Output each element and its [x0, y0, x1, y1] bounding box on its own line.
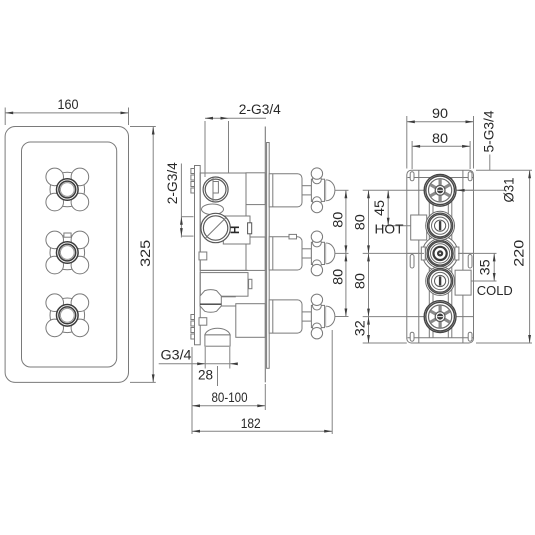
handle hub (side view): [311, 305, 324, 327]
HOT side block: [411, 215, 427, 240]
bracket slot hatches lower: [191, 315, 195, 320]
svg-text:80: 80: [353, 273, 369, 289]
svg-text:80-100: 80-100: [212, 390, 248, 406]
port circle 2 (hot inlet): [201, 213, 230, 242]
mounting bracket outline (back view): [407, 170, 474, 343]
H box side tab: [248, 223, 252, 234]
row3 volume control block: [236, 304, 265, 338]
svg-text:160: 160: [58, 97, 79, 113]
svg-text:35: 35: [478, 259, 494, 275]
svg-text:80: 80: [432, 131, 448, 147]
handle hub (side view): [311, 242, 324, 264]
valve column vertical lines: [428, 178, 430, 338]
handle stem (side view): [302, 312, 311, 321]
dimension 160 extension lines: [4, 108, 6, 126]
elbow outlet lines to block: [221, 296, 236, 298]
port circle top (G3/4 outlet): [203, 177, 228, 202]
handle cross lobes (side view): [313, 238, 322, 247]
handle bell (side view): [269, 300, 302, 333]
handle cross lobes (side view): [313, 175, 322, 184]
cold inlet port (back view): [426, 267, 455, 296]
mounting bracket edge-on: [195, 166, 201, 345]
boss oval between ports: [202, 204, 224, 215]
handle dome cap (side view): [325, 306, 327, 327]
dimension 45: [382, 225, 411, 227]
svg-text:182: 182: [241, 416, 261, 432]
svg-text:32: 32: [353, 320, 369, 336]
svg-text:5-G3/4: 5-G3/4: [482, 110, 498, 152]
svg-text:80: 80: [331, 269, 347, 285]
svg-text:220: 220: [511, 240, 527, 267]
cartridge 2 double top line: [200, 269, 248, 271]
body small tab lower-left: [199, 318, 207, 326]
dimension 325 extension lines: [130, 126, 156, 128]
H cartridge box: [223, 216, 250, 244]
handle cross lobes (side view): [313, 301, 322, 310]
handle escutcheon circle: [50, 235, 85, 270]
handle cross lobes: [46, 168, 64, 186]
bracket mounting slots: [410, 172, 414, 181]
svg-text:90: 90: [432, 106, 448, 122]
svg-text:COLD: COLD: [477, 284, 513, 298]
handle inner circle: [60, 246, 74, 260]
handle stem (side view): [302, 186, 311, 195]
central rib stub lines: [407, 252, 422, 254]
dimension 80 top: [411, 141, 413, 169]
bottom outlet arch: [205, 328, 230, 335]
bracket inner horizontal lines: [408, 177, 474, 179]
left view: faceplate inner outline: [22, 142, 117, 367]
dimension 35: [458, 252, 497, 254]
svg-text:80: 80: [331, 212, 347, 228]
svg-text:H: H: [230, 226, 242, 234]
row2 cartridge cylinder: [246, 237, 265, 270]
right view left dimension column 80/80/32: [363, 189, 407, 191]
svg-text:28: 28: [198, 368, 213, 384]
svg-text:325: 325: [138, 240, 154, 267]
dimension 80-100: [191, 347, 193, 410]
COLD side block: [455, 270, 471, 295]
middle 80/80 dimension column: [345, 190, 347, 316]
dimension 28 line and arrows: [205, 363, 237, 365]
left label dimension line: [180, 164, 182, 238]
handle cross lobes: [46, 231, 64, 249]
wall plate back face line: [264, 127, 266, 383]
handle dome cap (side view): [325, 243, 327, 264]
row1 cartridge cylinder: [246, 173, 265, 205]
handle hub (side view): [311, 179, 324, 201]
svg-text:45: 45: [372, 200, 388, 216]
elbow barrel: [200, 290, 221, 313]
dimension 160 line: [5, 112, 128, 114]
handle bell (side view): [269, 237, 302, 270]
handle hub rings: [56, 304, 78, 326]
handle escutcheon circle: [50, 172, 85, 207]
svg-text:80: 80: [353, 214, 369, 230]
temperature stop button (side): [289, 234, 297, 239]
handle dome cap (side view): [325, 180, 327, 201]
handle bell (side view): [269, 174, 302, 207]
handle hub rings: [56, 241, 78, 263]
bracket inner vertical lines: [418, 170, 420, 343]
bottom outlet pipe: [205, 335, 230, 346]
body small tab upper-left: [199, 252, 207, 260]
handle stem (side view): [302, 249, 311, 258]
cartridge 2 body: [200, 273, 248, 297]
bracket slot hatches upper: [191, 169, 195, 174]
handle escutcheon circle: [50, 298, 85, 333]
handle cross lobes: [46, 294, 64, 312]
wall plate front strip: [267, 143, 270, 369]
bottom port (back view): [424, 301, 456, 333]
cartridge 2 side tab: [249, 279, 252, 288]
svg-text:G3/4: G3/4: [161, 347, 192, 363]
hot inlet port (back view): [426, 211, 455, 240]
label G3/4 leader line: [159, 363, 206, 365]
bracket rib lines: [407, 189, 474, 191]
svg-text:HOT: HOT: [375, 223, 404, 237]
left view: faceplate outer outline: [5, 127, 128, 383]
dimension 220: [476, 169, 532, 171]
handle inner circle: [60, 183, 74, 197]
handle inner circle: [60, 308, 74, 322]
dimension 182: [191, 410, 193, 434]
temperature stop button: [64, 233, 71, 237]
dimension 2-G3/4 top: extension lines: [204, 121, 206, 177]
top port (back view): [424, 174, 456, 206]
svg-text:2-G3/4: 2-G3/4: [239, 102, 281, 118]
dimension 90: [406, 116, 408, 169]
central thermostatic port: [422, 236, 458, 272]
dimension 2-G3/4 top line: [205, 117, 266, 119]
central port side tabs: [421, 247, 425, 260]
valve body upper block: [200, 173, 246, 270]
dimension 325 line: [152, 127, 154, 383]
handle hub rings: [56, 178, 78, 200]
svg-text:2-G3/4: 2-G3/4: [165, 162, 181, 204]
